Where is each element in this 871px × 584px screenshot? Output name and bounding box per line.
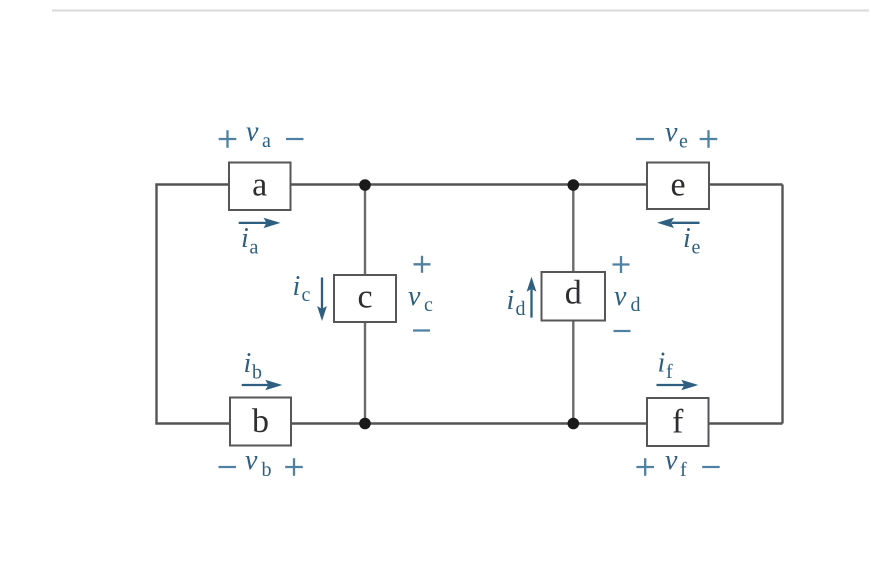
svg-text:i: i: [244, 348, 252, 379]
svg-text:i: i: [658, 348, 666, 379]
svg-text:e: e: [670, 167, 685, 204]
wire: bottom middle (element b to element f): [290, 422, 648, 424]
svg-text:v: v: [614, 281, 627, 312]
svg-text:b: b: [252, 362, 262, 384]
node: top left junction: [359, 179, 371, 191]
svg-text:i: i: [241, 223, 249, 254]
svg-text:f: f: [680, 459, 687, 481]
svg-text:e: e: [692, 237, 701, 259]
element e (box): [647, 163, 709, 210]
current arrow ib: [242, 348, 283, 390]
svg-text:a: a: [252, 167, 267, 204]
wire: bottom right (element f to right corner): [708, 422, 783, 424]
svg-text:c: c: [357, 279, 372, 316]
svg-text:c: c: [424, 294, 433, 316]
svg-text:i: i: [507, 285, 515, 316]
label - vb + (voltage of b): [219, 445, 303, 481]
node: bottom right junction: [568, 418, 580, 430]
wire: branch d lower: [572, 320, 574, 424]
element f (box): [647, 398, 709, 446]
wire: branch c lower: [364, 321, 366, 424]
wire: branch d upper: [572, 185, 574, 273]
wire: top middle (element a to element e): [290, 183, 648, 185]
wire: right side vertical: [781, 185, 783, 424]
svg-text:d: d: [565, 275, 582, 312]
label + vc - (voltage of c): [408, 256, 433, 331]
svg-text:v: v: [408, 281, 421, 312]
svg-text:f: f: [666, 361, 673, 383]
current arrow id: [507, 277, 537, 320]
wire: bottom left (left corner to element b): [155, 422, 231, 424]
label - ve + (voltage of e): [636, 117, 717, 153]
wire: left side vertical: [155, 185, 157, 424]
svg-text:i: i: [293, 271, 301, 302]
label + vd - (voltage of d): [613, 256, 641, 331]
current arrow if: [657, 348, 699, 391]
wire: top right (element e to right corner): [708, 183, 783, 185]
svg-text:d: d: [631, 294, 641, 316]
svg-text:i: i: [683, 223, 691, 254]
svg-text:v: v: [665, 445, 678, 476]
svg-text:b: b: [262, 459, 272, 481]
svg-text:v: v: [246, 117, 259, 148]
label + va - (voltage of a): [219, 117, 304, 153]
svg-text:b: b: [252, 403, 269, 440]
current arrow ia: [239, 218, 281, 259]
element a (box): [229, 163, 291, 211]
svg-text:v: v: [245, 445, 258, 476]
svg-text:v: v: [665, 117, 678, 148]
node: bottom left junction: [359, 418, 371, 430]
label + vf - (voltage of f): [636, 445, 719, 481]
element c (box): [334, 275, 396, 322]
node: top right junction: [568, 179, 580, 191]
element d (box): [542, 272, 606, 321]
current arrow ie: [657, 218, 701, 259]
top divider rule: [52, 10, 869, 12]
svg-text:a: a: [262, 130, 271, 152]
svg-text:a: a: [250, 237, 259, 259]
svg-text:d: d: [516, 298, 526, 320]
wire: branch c upper: [364, 185, 366, 276]
current arrow ic: [293, 271, 327, 321]
element b (box): [230, 398, 291, 446]
svg-text:e: e: [679, 131, 688, 153]
svg-text:c: c: [302, 284, 311, 306]
svg-text:f: f: [672, 404, 684, 441]
wire: top left (left corner to element a): [155, 183, 230, 185]
